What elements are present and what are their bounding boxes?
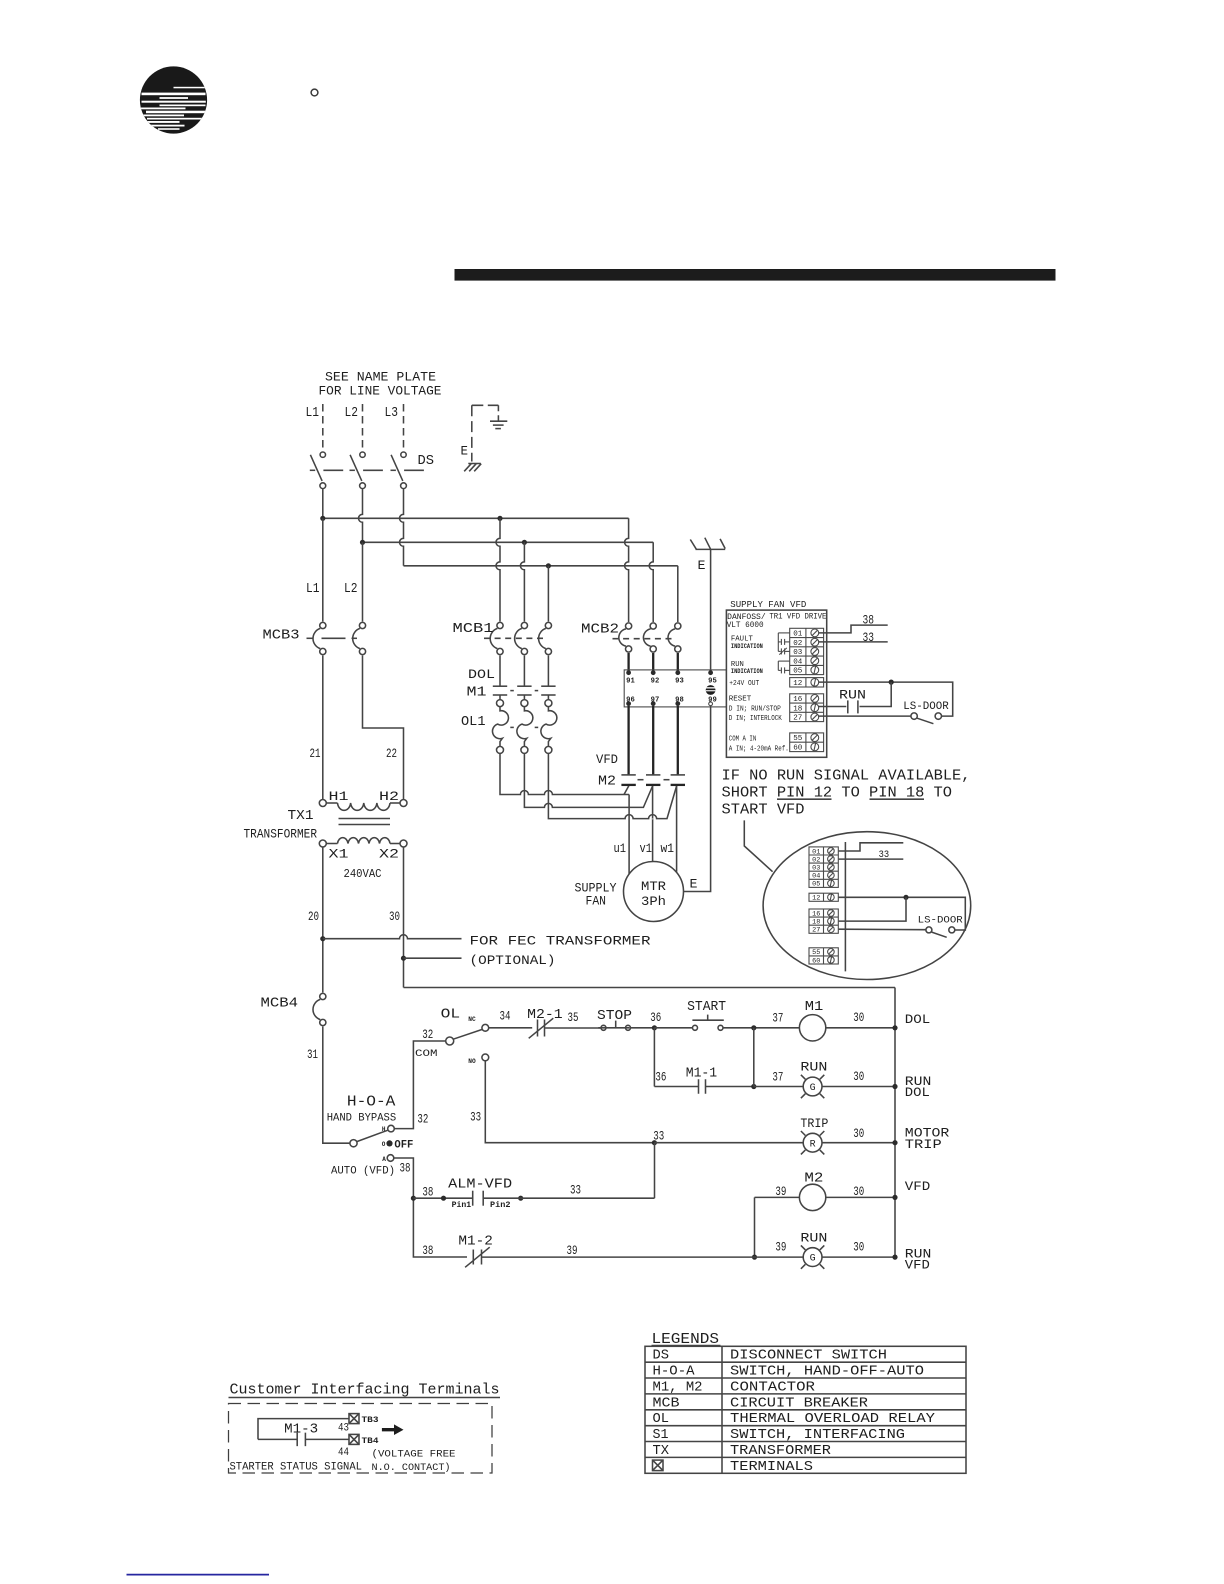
svg-text:33: 33 <box>879 849 890 861</box>
svg-text:37: 37 <box>772 1011 783 1026</box>
ladder right rail <box>894 988 896 1258</box>
wire 39 M1-2 to RUN VFD junction <box>482 1256 755 1258</box>
pushbutton STOP (NC) <box>598 1021 630 1031</box>
svg-text:w1: w1 <box>661 841 675 856</box>
svg-text:60: 60 <box>812 957 820 964</box>
svg-text:(VOLTAGE FREE: (VOLTAGE FREE <box>372 1449 456 1461</box>
svg-text:INDICATION: INDICATION <box>731 668 763 675</box>
contact M2-1 (NC interlock) <box>529 1018 554 1038</box>
wire to RUN VFD lamp <box>755 1256 804 1258</box>
svg-text:IF NO RUN SIGNAL AVAILABLE,: IF NO RUN SIGNAL AVAILABLE, <box>722 769 971 785</box>
wire M1-3 lower wire <box>258 1438 297 1440</box>
balloon box right edge <box>844 842 846 971</box>
svg-text:RUN: RUN <box>800 1230 827 1245</box>
svg-text:55: 55 <box>812 949 820 956</box>
svg-text:M2: M2 <box>598 775 616 790</box>
svg-text:E: E <box>698 558 706 573</box>
coil M2 <box>799 1184 825 1210</box>
underline PIN 12 <box>777 798 832 800</box>
wire M2-1 to STOP <box>545 1027 602 1029</box>
wire M2 coil to rail <box>826 1196 895 1198</box>
svg-text:STARTER STATUS SIGNAL: STARTER STATUS SIGNAL <box>230 1462 363 1474</box>
wire DS pole2 to bus L2 (hop over bus1) <box>359 489 363 543</box>
svg-text:FOR LINE VOLTAGE: FOR LINE VOLTAGE <box>319 384 442 399</box>
terminal group 01-05 <box>790 628 824 674</box>
svg-text:M2-1: M2-1 <box>527 1008 563 1023</box>
svg-text:M1-2: M1-2 <box>458 1234 493 1249</box>
pilot lamp RUN (G) DOL <box>801 1075 824 1098</box>
circuit breaker MCB1 <box>484 622 552 654</box>
wire OL1 pole3 to motor feed row3 (hops u1,v1) diag to M2 pole3 <box>548 753 676 818</box>
balloon wire from 12 to LS-DOOR <box>839 897 966 930</box>
svg-text:32: 32 <box>417 1112 428 1127</box>
svg-text:HAND BYPASS: HAND BYPASS <box>327 1113 397 1125</box>
svg-text:LS-DOOR: LS-DOOR <box>903 701 949 713</box>
svg-text:MTR: MTR <box>641 880 667 894</box>
riser 33 up to trip row <box>654 1143 656 1199</box>
wire lamp to rail (RUN DOL row) <box>822 1086 895 1088</box>
svg-text:12: 12 <box>793 680 802 688</box>
svg-text:01: 01 <box>812 848 820 855</box>
svg-text:THERMAL OVERLOAD RELAY: THERMAL OVERLOAD RELAY <box>730 1412 935 1427</box>
svg-text:A IN; 4-20mA Ref.: A IN; 4-20mA Ref. <box>729 745 789 753</box>
junction dot rail VFD <box>892 1195 897 1200</box>
terminal 91 <box>626 670 631 675</box>
customer box dashed border <box>229 1404 493 1474</box>
svg-text:38: 38 <box>863 613 875 628</box>
VFD power terminal strip box <box>624 670 726 707</box>
svg-text:33: 33 <box>863 630 875 645</box>
earth symbol at VFD (hatched) <box>690 538 725 550</box>
svg-text:39: 39 <box>567 1243 578 1258</box>
junction dot bus L2 / MCB3 <box>360 540 365 545</box>
svg-text:39: 39 <box>775 1184 786 1199</box>
junction dot 33 row <box>652 1140 657 1145</box>
svg-text:VFD: VFD <box>905 1258 930 1273</box>
svg-text:H: H <box>382 1126 386 1133</box>
svg-text:OL: OL <box>653 1412 670 1427</box>
junction dot rail RUN VFD <box>892 1255 897 1260</box>
svg-text:OL1: OL1 <box>461 715 486 730</box>
balloon junction dot 12-18 jumper <box>903 895 908 900</box>
junction dot M1-1 row <box>751 1084 756 1089</box>
svg-text:27: 27 <box>793 715 802 723</box>
wire w1 motor lead <box>676 786 678 872</box>
junction dot OPTIONAL tap on wire 30 <box>401 956 406 961</box>
svg-text:43: 43 <box>338 1423 349 1435</box>
svg-text:L2: L2 <box>344 582 358 597</box>
svg-text:Pin1: Pin1 <box>452 1201 472 1210</box>
terminal 92 <box>651 670 656 675</box>
wire START to coil M1 <box>723 1027 799 1029</box>
terminal group 55,60 <box>790 733 824 752</box>
svg-text:05: 05 <box>793 668 802 676</box>
svg-text:D IN; INTERLOCK: D IN; INTERLOCK <box>729 715 783 723</box>
balloon wire from 27 <box>839 928 926 931</box>
svg-text:M1: M1 <box>467 686 487 701</box>
svg-text:O: O <box>382 1141 386 1148</box>
svg-text:DISCONNECT SWITCH: DISCONNECT SWITCH <box>730 1349 887 1364</box>
wire FOR FEC TRANSFORMER tap (hop over wire 30) <box>323 935 462 939</box>
svg-text:30: 30 <box>853 1069 864 1084</box>
svg-text:33: 33 <box>570 1183 581 1198</box>
balloon terminal group 12 <box>809 893 838 901</box>
contactor M1 (DOL) contacts <box>493 656 556 700</box>
circuit breaker MCB4 <box>313 993 326 1025</box>
svg-text:AUTO (VFD): AUTO (VFD) <box>331 1166 395 1178</box>
svg-text:DS: DS <box>418 454 435 469</box>
fault relay contact symbol (form C) <box>778 633 789 655</box>
earth ball terminal inside strip <box>705 685 717 695</box>
svg-text:SUPPLY FAN VFD: SUPPLY FAN VFD <box>730 600 806 610</box>
black title bar <box>455 269 1056 281</box>
wire 20 X1 down to MCB4 <box>322 847 324 993</box>
svg-text:TB3: TB3 <box>362 1416 379 1425</box>
junction dot rail RUN DOL <box>892 1084 897 1089</box>
svg-text:02: 02 <box>812 856 820 863</box>
svg-text:DS: DS <box>653 1349 670 1364</box>
limit switch LS-DOOR <box>911 713 942 724</box>
svg-text:91: 91 <box>626 678 635 686</box>
svg-text:L1: L1 <box>306 582 320 597</box>
svg-text:33: 33 <box>470 1109 481 1124</box>
junction dot bus L1 / MCB1 pole1 drop <box>497 516 502 521</box>
svg-text:VFD: VFD <box>596 752 618 767</box>
svg-text:ALM-VFD: ALM-VFD <box>448 1178 512 1193</box>
svg-text:TRANSFORMER: TRANSFORMER <box>244 828 318 842</box>
wire OPTIONAL tap <box>404 957 462 959</box>
svg-text:03: 03 <box>812 865 820 872</box>
wire 36 down-branch to M1-1 <box>653 1028 655 1087</box>
wire M1 coil to rail <box>826 1027 895 1029</box>
wire to M2 coil <box>755 1196 800 1198</box>
svg-text:E: E <box>690 877 698 892</box>
svg-text:VLT 6000: VLT 6000 <box>727 622 764 630</box>
contact M1-1 (seal-in NO) <box>699 1079 706 1094</box>
bus L2 horizontal <box>363 541 654 543</box>
terminal TB4 <box>349 1434 359 1444</box>
VFD drive control box DANFOSS VLT 6000 <box>726 610 826 757</box>
balloon wire from 02 <box>839 858 904 860</box>
svg-text:DOL: DOL <box>468 667 495 682</box>
wire L3 incoming (dashed) <box>403 404 405 451</box>
svg-text:FAULT: FAULT <box>731 635 753 643</box>
svg-text:Pin2: Pin2 <box>490 1201 511 1210</box>
svg-text:MCB1: MCB1 <box>453 622 494 637</box>
junction dot FEC tap on wire 20 <box>320 936 325 941</box>
svg-text:M2: M2 <box>804 1171 823 1186</box>
svg-text:DOL: DOL <box>905 1085 930 1100</box>
wire 38 to ALM-VFD <box>413 1197 472 1199</box>
svg-text:MCB4: MCB4 <box>261 997 299 1012</box>
note SEE NAME PLATE FOR LINE VOLTAGE <box>319 370 442 399</box>
transformer TX1 secondary winding X1-X2 <box>319 838 407 847</box>
terminal group 16,18,27 <box>790 694 824 722</box>
svg-text:05: 05 <box>812 881 820 888</box>
wire junction down to RUN contact <box>860 682 892 706</box>
svg-text:TERMINALS: TERMINALS <box>730 1460 813 1475</box>
svg-text:VFD: VFD <box>905 1179 931 1194</box>
svg-text:DOL: DOL <box>905 1012 931 1027</box>
svg-text:33: 33 <box>653 1128 664 1143</box>
svg-text:LS-DOOR: LS-DOOR <box>918 915 963 926</box>
svg-text:START VFD: START VFD <box>722 803 805 819</box>
earth lead E (dashed) with ground symbols <box>472 405 508 461</box>
wire bus L2 down to MCB3 pole2 <box>362 542 364 621</box>
wire v1 motor lead <box>652 786 654 862</box>
svg-text:30: 30 <box>853 1010 864 1025</box>
wire bus L1 drop to MCB1 pole1 (hops bus2,bus3) <box>496 518 500 621</box>
transformer TX1 primary winding H1-H2 <box>319 800 407 811</box>
wire 33 from terminal 02 <box>818 641 887 643</box>
svg-text:S1: S1 <box>653 1428 669 1443</box>
svg-text:START: START <box>687 1000 726 1015</box>
contact ALM-VFD (drive alarm) <box>473 1191 484 1206</box>
wire 31 MCB4 to H-O-A common <box>323 1027 350 1144</box>
pilot lamp RUN (G) VFD <box>801 1245 824 1268</box>
svg-text:18: 18 <box>812 919 820 926</box>
wire 38 from AUTO position <box>394 1158 467 1257</box>
svg-text:SUPPLY: SUPPLY <box>575 882 617 896</box>
wire OL1 pole2 to motor feed row2 (hop pole3, hop u1) diag to M2 pole2 <box>524 753 652 807</box>
svg-text:38: 38 <box>422 1243 433 1258</box>
svg-text:RUN: RUN <box>800 1060 827 1075</box>
wire 33 junction to TRIP lamp <box>654 1142 803 1144</box>
motor MTR 3Ph supply fan <box>624 862 684 922</box>
svg-text:SEE NAME PLATE: SEE NAME PLATE <box>325 370 436 385</box>
svg-text:+24V OUT: +24V OUT <box>729 680 759 688</box>
wire bus L1 drop to MCB2 pole1 (hops bus2,bus3) <box>625 518 629 622</box>
junction dot RUN VFD row <box>752 1255 757 1260</box>
wire M1-1 to junction 37 branch <box>706 1086 754 1088</box>
svg-text:21: 21 <box>310 746 321 761</box>
svg-text:22: 22 <box>386 746 397 761</box>
svg-text:240VAC: 240VAC <box>344 867 382 881</box>
svg-text:60: 60 <box>793 745 802 753</box>
svg-text:44: 44 <box>338 1447 349 1459</box>
svg-text:TRIP: TRIP <box>905 1137 942 1152</box>
balloon terminal group 16,18,27 <box>809 909 838 933</box>
svg-text:TX1: TX1 <box>288 809 314 824</box>
wire DS pole3 to bus L3 (hops over bus1, bus2) <box>400 489 404 566</box>
wire u1 motor lead <box>628 795 630 875</box>
junction dot 38/ALM row <box>411 1196 416 1201</box>
svg-text:DANFOSS/: DANFOSS/ <box>727 614 766 622</box>
svg-text:X2: X2 <box>379 848 399 862</box>
svg-text:u1: u1 <box>614 841 627 856</box>
svg-text:M1: M1 <box>805 1000 824 1015</box>
contactor M2 (VFD) contacts <box>621 775 685 785</box>
wire terminal 27 to LS-DOOR <box>818 715 911 717</box>
wire to RUN DOL lamp <box>754 1086 803 1088</box>
wire 33 from OL NO down to trip row <box>485 1061 654 1143</box>
switch H-O-A hand-off-auto <box>350 1125 394 1161</box>
svg-text:G: G <box>810 1083 816 1094</box>
junction dot bus L1 / MCB3 <box>320 516 325 521</box>
svg-text:04: 04 <box>812 873 820 880</box>
wire 21 MCB3 to TX1 H1 <box>322 656 324 800</box>
junction dot on +24V wire <box>889 680 894 685</box>
svg-text:E: E <box>461 445 469 459</box>
circuit breaker MCB2 <box>613 623 681 652</box>
footer blue link line <box>127 1574 270 1576</box>
svg-text:L3: L3 <box>385 406 399 421</box>
svg-text:OFF: OFF <box>394 1139 413 1151</box>
svg-text:N.O. CONTACT): N.O. CONTACT) <box>372 1462 451 1474</box>
wire bus L2 drop to MCB1 pole2 (hop bus3) <box>520 542 524 621</box>
junction dot bus L3 / MCB1 pole3 drop <box>546 563 551 568</box>
bus L1 horizontal <box>323 517 629 519</box>
pushbutton START (NO) <box>692 1015 723 1031</box>
svg-text:OL: OL <box>441 1008 461 1023</box>
bus L3 horizontal <box>404 565 678 567</box>
disconnect switch DS <box>310 452 424 489</box>
svg-text:X1: X1 <box>329 848 349 862</box>
svg-text:TRIP: TRIP <box>800 1116 828 1131</box>
svg-text:16: 16 <box>812 910 820 917</box>
wire M1-3 upper to TB3 <box>258 1419 349 1440</box>
svg-text:36: 36 <box>650 1010 661 1025</box>
svg-text:36: 36 <box>655 1070 666 1085</box>
wire junction to START <box>654 1027 692 1029</box>
company logo (black globe with speed stripes) <box>140 66 207 133</box>
riser junction 37 to M1-1 row <box>753 1028 755 1087</box>
run relay contact symbol <box>778 661 789 673</box>
svg-text:30: 30 <box>389 909 400 924</box>
junction dot bus L2 / MCB1 pole2 drop <box>522 540 527 545</box>
svg-text:INDICATION: INDICATION <box>731 643 763 650</box>
balloon terminal group 55,60 <box>809 948 838 964</box>
svg-text:SWITCH, INTERFACING: SWITCH, INTERFACING <box>730 1428 905 1443</box>
underline PIN 18 <box>870 798 925 800</box>
wire 38 from terminal 01 <box>818 625 887 633</box>
svg-text:CONTACTOR: CONTACTOR <box>730 1381 815 1396</box>
balloon limit switch LS-DOOR <box>926 927 955 937</box>
junction dot ALM-VFD pin2 <box>518 1196 523 1201</box>
junction dot 36 <box>652 1025 657 1030</box>
svg-text:37: 37 <box>772 1070 783 1085</box>
wire L1 incoming (dashed) <box>322 404 324 451</box>
svg-text:COM: COM <box>415 1048 438 1060</box>
svg-text:38: 38 <box>422 1184 433 1199</box>
svg-text:A: A <box>382 1156 386 1163</box>
small circle mark (degree symbol) top center-left <box>311 89 318 96</box>
circuit breaker MCB3 <box>307 622 366 654</box>
svg-text:34: 34 <box>500 1008 511 1023</box>
svg-text:TB4: TB4 <box>362 1437 379 1446</box>
wire TRIP lamp to rail <box>822 1142 895 1144</box>
wire L2 incoming (dashed) <box>362 404 364 451</box>
svg-text:L2: L2 <box>345 406 359 421</box>
svg-text:32: 32 <box>422 1027 433 1042</box>
svg-text:92: 92 <box>651 678 660 686</box>
svg-text:95: 95 <box>708 678 717 686</box>
wire E down to VFD terminal 95 <box>710 549 712 672</box>
terminal group 12 <box>790 678 824 687</box>
wire E from terminal 99 to motor frame <box>684 706 711 892</box>
svg-text:30: 30 <box>853 1184 864 1199</box>
svg-text:MCB: MCB <box>653 1396 680 1411</box>
wire M1-3 to TB4 <box>305 1438 348 1440</box>
junction dot ALM-VFD pin1 <box>441 1196 446 1201</box>
wire control feed 30 to ladder right rail <box>404 987 896 989</box>
thermal overload relay OL1 <box>492 700 556 754</box>
signal direction arrow <box>382 1424 404 1435</box>
svg-text:TRANSFORMER: TRANSFORMER <box>730 1444 831 1459</box>
contact M1-2 (NC) <box>465 1247 490 1267</box>
wire to M1-1 contact <box>654 1086 698 1088</box>
svg-text:NC: NC <box>468 1016 476 1023</box>
wires MCB2 to VFD terminals 91,92,93 <box>629 653 678 673</box>
wire bus L1 down to MCB3 pole1 <box>322 518 324 621</box>
svg-text:M1-3: M1-3 <box>284 1423 318 1438</box>
wire 30 X2 down <box>403 847 405 988</box>
svg-text:Customer Interfacing Terminals: Customer Interfacing Terminals <box>230 1382 500 1399</box>
svg-text:v1: v1 <box>640 841 653 856</box>
junction dot 37 <box>751 1025 756 1030</box>
svg-text:TR1 VFD DRIVE: TR1 VFD DRIVE <box>769 613 826 621</box>
terminal symbol in legends <box>653 1460 664 1471</box>
svg-text:35: 35 <box>568 1010 579 1025</box>
svg-text:RUN: RUN <box>839 689 866 703</box>
svg-text:SWITCH, HAND-OFF-AUTO: SWITCH, HAND-OFF-AUTO <box>730 1365 924 1380</box>
svg-text:M1-1: M1-1 <box>686 1067 718 1082</box>
svg-text:30: 30 <box>853 1126 864 1141</box>
wire bus L3 drop to MCB1 pole3 <box>547 566 549 622</box>
svg-text:38: 38 <box>400 1160 411 1175</box>
wire 32 from H position up to OL aux COM <box>394 1041 446 1129</box>
balloon terminal group 01-05 <box>809 847 838 888</box>
svg-text:31: 31 <box>307 1047 318 1062</box>
TX1 core <box>339 819 391 825</box>
svg-text:27: 27 <box>812 927 820 934</box>
svg-text:MCB2: MCB2 <box>581 623 619 638</box>
svg-text:M1, M2: M1, M2 <box>653 1381 703 1396</box>
wire 22 MCB3 to TX1 H2 <box>363 656 404 800</box>
svg-text:NO: NO <box>468 1058 476 1065</box>
OL aux switch (trip contact) <box>446 1024 489 1060</box>
svg-text:D IN; RUN/STOP: D IN; RUN/STOP <box>729 705 781 713</box>
wire STOP to junction 36 <box>631 1027 655 1029</box>
svg-text:MCB3: MCB3 <box>263 629 300 644</box>
terminal 93 <box>675 670 680 675</box>
svg-text:93: 93 <box>675 678 684 686</box>
svg-text:FAN: FAN <box>586 895 607 909</box>
svg-text:L1: L1 <box>306 406 320 421</box>
svg-text:H-O-A: H-O-A <box>653 1365 696 1380</box>
svg-text:39: 39 <box>775 1239 786 1254</box>
wire DS pole1 to bus L1 <box>322 489 324 519</box>
svg-text:STOP: STOP <box>597 1009 632 1024</box>
legends table frame <box>645 1346 966 1473</box>
svg-text:COM A IN: COM A IN <box>729 736 757 744</box>
chassis ground symbol below E <box>464 464 481 472</box>
riser to M2 coil row <box>754 1197 756 1257</box>
balloon wire from 01 <box>839 843 904 851</box>
wire bus L3 drop to MCB2 pole3 <box>677 566 679 622</box>
detail balloon ellipse <box>763 832 971 980</box>
coil M1 <box>799 1015 825 1041</box>
terminal TB3 <box>349 1414 359 1424</box>
svg-text:R: R <box>810 1139 816 1150</box>
svg-text:TX: TX <box>653 1444 670 1459</box>
svg-text:3Ph: 3Ph <box>641 895 666 909</box>
wire RUN VFD lamp to rail <box>822 1256 895 1258</box>
svg-text:H-O-A: H-O-A <box>347 1094 396 1111</box>
pilot lamp TRIP (R) <box>801 1131 824 1154</box>
svg-text:(OPTIONAL): (OPTIONAL) <box>470 953 556 968</box>
svg-text:FOR FEC TRANSFORMER: FOR FEC TRANSFORMER <box>470 934 651 949</box>
